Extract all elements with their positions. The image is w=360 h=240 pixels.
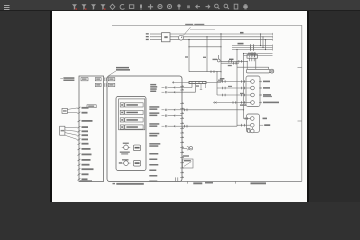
selector row 4 (120, 125, 143, 129)
selector row 1 (120, 103, 143, 107)
wire L2 bus (170, 36, 273, 38)
wire feeder y46.8 (189, 46, 221, 48)
label W drop (203, 57, 206, 58)
lamp pin tick 1 (259, 81, 262, 83)
rail pin 13 (180, 152, 184, 153)
wire rail to x237 (182, 125, 237, 128)
contact M3 (251, 48, 254, 51)
wire drop x221 (220, 34, 225, 82)
meter gauge G2 (119, 161, 131, 166)
wire L1 bus (170, 33, 273, 35)
wire pin 1 (78, 107, 89, 109)
wire pilot lamp feed 3 (217, 94, 251, 97)
pilot lamp PL2 (251, 86, 255, 90)
wire L2 input (151, 36, 161, 38)
note leader line (183, 27, 190, 35)
wire drop x263 (262, 36, 263, 48)
wire L3 input (151, 39, 161, 41)
rail pin 16 (180, 167, 184, 168)
wire TB2 drop 1 (248, 58, 250, 61)
contact aux 1 (252, 52, 255, 55)
relay coil box CR1 (247, 69, 270, 73)
rail pin 3 (180, 102, 184, 103)
note REFER TO SHEET 2 (185, 24, 204, 26)
rail pin 15 (180, 162, 184, 163)
terminal block TB2 (247, 55, 258, 59)
branch end tick 3 (272, 49, 274, 51)
title block text left (193, 182, 202, 184)
lamp pin tick 3 (259, 94, 262, 96)
terminal label 1 (149, 106, 159, 110)
strip ground drop 2 (205, 84, 207, 88)
wire pin 8 (78, 143, 89, 145)
node J-L1 (220, 33, 221, 34)
connector J2 (60, 126, 65, 135)
stop button box (133, 160, 140, 166)
label below G1 (120, 152, 130, 155)
label T drop (185, 56, 188, 57)
label F2 (228, 65, 232, 66)
label above G2 (122, 159, 129, 160)
J1 fan wire 1 (67, 108, 77, 110)
label above G1 (123, 143, 129, 144)
wire motor branch 1 (232, 45, 273, 47)
drawing frame bottom border (181, 180, 302, 182)
resistor box RV1 (182, 159, 193, 168)
lamp label 3b (263, 96, 272, 97)
coil output wire (260, 124, 271, 126)
wire motor branch 2 (232, 47, 273, 49)
label above RV1 (183, 155, 189, 156)
connector CW3b box (95, 78, 101, 81)
wire pin 4 (78, 126, 89, 128)
wire drop x189 (188, 40, 189, 72)
label GND (80, 180, 92, 182)
label MOL1 (238, 43, 244, 45)
connector CW2 box (95, 83, 101, 86)
wire L1 input (151, 33, 161, 35)
terminal label 3 (149, 123, 159, 127)
wire rail to x243.5 (182, 109, 244, 112)
current transformer CT1 (179, 35, 184, 40)
connector pins row1 (104, 78, 107, 81)
lamp label 4 (263, 102, 279, 104)
contact label row2 (228, 86, 232, 87)
rail pin 1 (180, 85, 184, 86)
motor coil M1 (251, 117, 255, 121)
wire pin 15 (78, 178, 88, 180)
terminal label 4 (149, 133, 159, 137)
J2 fan wire 3 (65, 133, 78, 136)
contact MOL2 (246, 128, 250, 132)
connector pins row2 (104, 84, 107, 87)
wire pilot lamp feed 2 (217, 87, 251, 90)
wire strip to x221 (206, 81, 221, 83)
fuse F2 (239, 60, 242, 63)
terminal label 5 (149, 143, 160, 147)
lamp pin tick 4 (259, 102, 262, 104)
wire pilot row (221, 62, 239, 64)
amp comp contact 2 (162, 115, 183, 117)
external connector leader (108, 71, 116, 76)
contact pilot (233, 62, 236, 65)
terminal strip TS1 (189, 81, 206, 83)
connector CW1 box (81, 78, 88, 81)
wire drop x265.5 (265, 39, 266, 50)
line label L2 (146, 36, 152, 37)
relay group box 2 (247, 114, 260, 132)
terminal box TB.1 (87, 105, 96, 108)
label TB1 CENTER POWER (150, 84, 157, 92)
wire aux branch 1 (244, 53, 273, 55)
contact label row1 (218, 80, 223, 81)
J1 fan wire 2 (67, 111, 77, 113)
selector row 2 (120, 110, 143, 114)
label MOL bottom (240, 104, 246, 105)
control enclosure (107, 76, 182, 182)
lamp label 2 (263, 87, 270, 89)
rail pin 10 (180, 137, 184, 138)
wire pilot lamp feed 4 (240, 101, 251, 104)
wire row4 extension (213, 101, 240, 104)
pilot lamp PL3 (251, 93, 255, 97)
wire link y71.7 (189, 71, 222, 72)
terminal label 7 (149, 159, 157, 161)
power row 1 (162, 84, 193, 89)
indicator lamp DS1 (182, 147, 193, 150)
meter gauge G1 (122, 144, 130, 150)
title block marks mid (205, 182, 213, 184)
wire TB2 drop 3 (253, 58, 255, 61)
J2 fan wire 4 (65, 135, 78, 139)
label EXTERNAL CONNECTOR (116, 67, 130, 71)
wire drop x260.5 (260, 33, 261, 46)
rail pin 7 (180, 122, 184, 123)
wire pin 12 (78, 164, 90, 166)
lamp label 1 (263, 81, 270, 83)
rail pin 6 (180, 117, 184, 118)
bus end tick L3 (272, 39, 274, 41)
wire alarm feed (236, 61, 268, 70)
wire pin 3 (78, 120, 93, 122)
operator panel box (116, 97, 146, 171)
selector list box (119, 99, 145, 130)
wire reel feed 2 (237, 124, 250, 127)
wire drop x217 (216, 71, 217, 95)
contact on y71.7 (211, 70, 214, 73)
wire drop x207 (206, 37, 208, 72)
frame zone tick right lower (298, 120, 302, 122)
contact M2 (251, 46, 254, 49)
bell alarm B1 (270, 69, 274, 73)
rail pin 18 (180, 176, 184, 177)
rail pin 4 (180, 108, 184, 109)
rail pin 14 (180, 156, 184, 157)
wire aux branch 2 (244, 55, 273, 57)
control transformer T2 (213, 55, 221, 62)
rail pin 11 (180, 142, 184, 143)
contact label row3 (240, 93, 244, 94)
lamp label 3 (263, 94, 271, 96)
drawing frame right border (301, 25, 303, 181)
branch end tick 2 (272, 47, 274, 49)
drawing frame top border (112, 24, 302, 26)
wire drop x247.2 (247, 61, 248, 70)
rail pin 17 (180, 172, 184, 173)
wire strip to rail (172, 81, 189, 83)
label wye marks (196, 85, 199, 86)
frame zone tick right upper (298, 66, 302, 68)
cable wire list box (79, 76, 104, 182)
contact aux 2 (252, 54, 255, 57)
line label L1 (146, 33, 152, 34)
wire drop x255.8 (255, 58, 257, 69)
lamp pin tick 2 (259, 87, 262, 89)
connector CW3 box (108, 78, 115, 81)
wire pin 2 (78, 112, 88, 114)
wire pin 9 (78, 148, 91, 150)
wire motor branch 3 (232, 49, 273, 51)
bus end tick L1 (272, 33, 274, 35)
rail pin 2 (180, 89, 184, 90)
wire pin 13 (78, 168, 94, 170)
wire bus x237 (236, 49, 237, 126)
connector J1 (62, 108, 67, 113)
pilot lamp PL1 (251, 80, 255, 84)
amp comp contact 3 (162, 125, 183, 127)
power row 2 (162, 84, 196, 94)
wire coil chain (251, 127, 253, 129)
fuse F1 (229, 60, 231, 63)
strip ground drop 1 (200, 84, 202, 90)
rail pin 12 (180, 146, 184, 147)
node J-L3 (188, 39, 189, 40)
wire pin 10 (78, 154, 92, 156)
bus end tick L2 (272, 36, 274, 38)
transformer T1 (162, 33, 171, 42)
J2 fan wire 2 (65, 130, 78, 131)
rail pin 8 (180, 127, 184, 128)
wire pin 11 (78, 159, 91, 161)
wire pin 14 (78, 173, 89, 175)
connector CW4 box (108, 83, 115, 86)
label CONN TO REF DWG (60, 77, 74, 81)
terminal label 2 (149, 112, 159, 116)
note underline segment (190, 29, 215, 31)
label 4A (229, 59, 234, 61)
hamburger menu icon (4, 5, 10, 10)
motor coil M2 (251, 123, 255, 127)
terminal label 6 (149, 153, 158, 155)
wire pin 7 (78, 139, 89, 141)
wire pilot lamp feed 1 (217, 80, 251, 83)
amp comp contact 1 (162, 109, 183, 111)
terminal label 10 (149, 175, 157, 177)
terminal label 11 (149, 181, 157, 183)
wire pin 5 (78, 130, 89, 132)
wire L3 bus (170, 39, 273, 41)
line label L3 (146, 39, 152, 40)
title block tick 2 (234, 181, 236, 183)
title block text right (251, 182, 267, 184)
fuse row wire (220, 61, 247, 62)
relay group box 1 (246, 76, 260, 107)
wire bus x243.5 (243, 53, 244, 119)
branch end tick 1 (272, 45, 274, 47)
terminal label 8 (149, 164, 158, 166)
start button box (133, 145, 140, 151)
J2 fan wire 1 (65, 126, 78, 128)
footnote cable note (113, 183, 144, 185)
motor coil M3 (251, 129, 255, 133)
rail pin 9 (180, 132, 184, 133)
selector row 3 (120, 118, 143, 122)
rail pin 5 (180, 112, 184, 113)
title block tick 1 (187, 181, 189, 183)
label above terminal block (248, 53, 256, 54)
pilot lamp PL4 (251, 101, 255, 105)
toolbar icons (72, 4, 248, 10)
contact M1 (251, 44, 254, 47)
terminal label 9 (149, 170, 156, 172)
wire reel feed 1 (244, 117, 251, 120)
wire TB2 drop 2 (251, 58, 253, 61)
coil label CW (263, 118, 268, 120)
ground pins bottom (176, 177, 178, 181)
wire pin 6 (78, 134, 89, 136)
label TB (240, 32, 244, 34)
node J-L2 (206, 36, 207, 37)
